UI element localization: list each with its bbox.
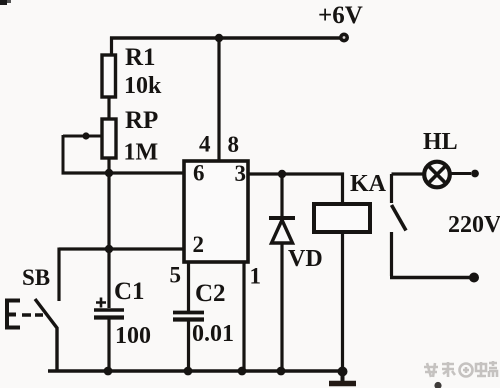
- wire R1 top stub: [110, 37, 113, 57]
- svg-text:0.01: 0.01: [192, 321, 234, 347]
- watermark logo dot: [434, 382, 441, 388]
- wire RP wiper: [63, 135, 101, 138]
- node top rail junction: [215, 34, 223, 42]
- svg-text:C1: C1: [114, 278, 145, 305]
- svg-text:RP: RP: [125, 107, 158, 134]
- wire pin2 horizontal: [59, 247, 185, 250]
- node VD junction: [278, 170, 286, 178]
- node C1 ground junction: [104, 367, 113, 376]
- ground: [329, 371, 356, 384]
- wire pin3 to KA: [248, 174, 343, 204]
- node C2 ground junction: [184, 367, 193, 376]
- svg-text:SB: SB: [22, 265, 50, 290]
- svg-text:VD: VD: [288, 246, 323, 272]
- wire bottom rail: [48, 369, 343, 373]
- switch SB blade: [35, 299, 57, 371]
- wire RP bottom stub: [107, 158, 110, 173]
- wire loop bottom to pin6: [62, 171, 186, 174]
- resistor R1: [102, 55, 116, 97]
- wire lamp right: [450, 172, 471, 175]
- lamp HL: [424, 162, 450, 188]
- relay coil KA: [314, 204, 370, 232]
- capacitor C1 plus sign: [96, 298, 106, 308]
- svg-text:1M: 1M: [124, 140, 159, 166]
- wire pins 4 8: [217, 38, 220, 161]
- wire top rail: [110, 36, 345, 39]
- node VD ground junction: [277, 367, 286, 376]
- svg-text:220V: 220V: [448, 212, 500, 238]
- diode VD: [269, 218, 295, 243]
- watermark 头条@电巢: [424, 361, 497, 377]
- IC U1 555 box: [184, 161, 248, 262]
- wire pin5: [187, 262, 190, 311]
- svg-text:+6V: +6V: [318, 2, 363, 29]
- svg-text:6: 6: [193, 161, 205, 186]
- wire VD branch: [280, 174, 283, 371]
- svg-text:KA: KA: [350, 171, 387, 197]
- svg-text:10k: 10k: [124, 73, 162, 99]
- capacitor C1: [94, 310, 124, 371]
- switch SB fixed contact: [57, 248, 60, 302]
- svg-text:C2: C2: [195, 280, 226, 307]
- wire KA bottom: [341, 232, 344, 372]
- wire pin1: [242, 262, 245, 371]
- node RP bottom junction: [105, 169, 113, 177]
- svg-text:1: 1: [250, 264, 262, 289]
- switch SB actuator E: [5, 300, 20, 328]
- node pin2 junction: [105, 245, 113, 253]
- terminal +6V: [339, 33, 349, 43]
- relay contact KA: [392, 174, 407, 276]
- node pin1 ground junction: [238, 367, 247, 376]
- wire left column: [107, 173, 110, 308]
- terminal bottom right: [469, 273, 479, 283]
- wire R1-RP stub: [107, 97, 110, 120]
- switch SB link dashes: [22, 313, 43, 316]
- node wiper dot: [82, 132, 89, 139]
- svg-text:5: 5: [170, 263, 182, 288]
- wire lamp left: [392, 172, 425, 175]
- svg-text:R1: R1: [125, 44, 156, 71]
- svg-text:4: 4: [199, 132, 211, 157]
- node KA ground junction: [338, 367, 348, 377]
- svg-text:8: 8: [228, 132, 240, 157]
- wire wiper left loop: [62, 135, 65, 173]
- capacitor C2: [173, 313, 204, 372]
- svg-text:HL: HL: [423, 129, 458, 155]
- wire contact bottom: [390, 276, 470, 280]
- svg-text:3: 3: [235, 161, 247, 186]
- svg-text:2: 2: [193, 232, 205, 257]
- terminal lamp right: [471, 170, 479, 178]
- corner smudge: [0, 0, 11, 5]
- potentiometer RP: [102, 119, 116, 158]
- svg-text:100: 100: [115, 323, 151, 349]
